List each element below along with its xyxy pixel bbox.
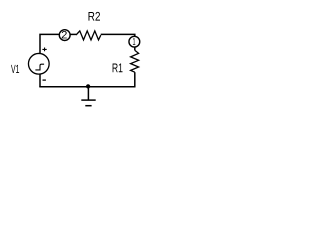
- ground bar (wide): [81, 99, 95, 101]
- V1 step-waveform symbol: [35, 64, 44, 70]
- wire R2 to node 1 corner: [101, 34, 135, 36]
- node 2: [59, 30, 70, 41]
- resistor R2: [76, 31, 101, 40]
- node 1 circle: [129, 36, 140, 47]
- label V1: [11, 65, 19, 73]
- V1 polarity minus sign: [43, 79, 46, 81]
- V1 polarity plus sign: [42, 48, 46, 52]
- label R2: [89, 12, 101, 21]
- ground stem: [87, 87, 89, 100]
- resistor R1: [131, 50, 139, 72]
- node 1 number label "1": [133, 38, 135, 45]
- voltage source V1 circle: [28, 53, 49, 74]
- wire from V1 top up and right to node 2: [40, 34, 59, 53]
- wire node1 to R1: [134, 48, 136, 51]
- node 2 number label "2": [62, 31, 67, 38]
- node 2 circle: [59, 30, 70, 41]
- bottom wire: [39, 86, 135, 88]
- wire R1 down to bottom rail: [134, 72, 136, 87]
- junction dot (ground node): [86, 84, 90, 88]
- ground: [81, 87, 95, 106]
- ground bar (short): [85, 105, 91, 107]
- wire node2 to R2: [70, 33, 76, 35]
- label R1: [113, 64, 123, 73]
- wire V1 bottom to bottom rail: [39, 74, 41, 87]
- node 1: [129, 36, 140, 47]
